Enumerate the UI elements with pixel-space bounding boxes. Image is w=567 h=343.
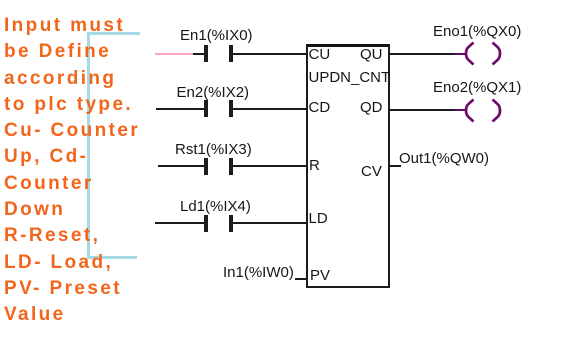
blue bracket vertical bbox=[87, 32, 90, 259]
contact En1 right bar bbox=[229, 45, 233, 62]
wire row 2 left bbox=[156, 108, 204, 110]
node Eno1 label bbox=[433, 24, 521, 39]
block name UPDN_CNT bbox=[309, 70, 391, 85]
pin PV bbox=[310, 268, 330, 283]
contact Rst1 right bar bbox=[229, 158, 233, 175]
contact En2 left bar bbox=[204, 100, 208, 117]
wire row 3 right bbox=[233, 165, 307, 167]
pin CD bbox=[309, 100, 331, 115]
pin R bbox=[309, 158, 320, 173]
contact Rst1 left bar bbox=[204, 158, 208, 175]
node En2 label bbox=[177, 85, 250, 100]
node En1 label bbox=[180, 28, 253, 43]
node Out1 label bbox=[399, 151, 489, 166]
wire QD to coil 2 bbox=[388, 109, 455, 111]
wire purple stub into coil 2 bbox=[455, 109, 466, 111]
wire row 5 stub to PV bbox=[295, 278, 308, 280]
wire row 4 left bbox=[155, 222, 204, 224]
coil Eno2 bbox=[450, 95, 510, 125]
wire CV stub bbox=[388, 165, 401, 167]
pin QU bbox=[360, 47, 383, 62]
wire row 4 right bbox=[233, 222, 307, 224]
node Rst1 label bbox=[175, 142, 252, 157]
annotation text (orange) bbox=[4, 13, 140, 329]
node Eno2 label bbox=[433, 80, 521, 95]
pin CU bbox=[309, 47, 331, 62]
function block UPDN_CNT bbox=[306, 44, 390, 288]
contact En2 right bar bbox=[229, 100, 233, 117]
pin CV bbox=[361, 164, 382, 179]
blue bracket top horizontal bbox=[87, 32, 140, 35]
coil Eno1 bbox=[450, 38, 510, 68]
blue bracket bottom horizontal bbox=[87, 256, 137, 259]
contact Ld1 right bar bbox=[229, 215, 233, 232]
pin LD bbox=[309, 211, 328, 226]
wire row 1 right bbox=[233, 53, 307, 55]
contact Ld1 left bar bbox=[204, 215, 208, 232]
wire row 2 right bbox=[233, 108, 307, 110]
wire QU to coil 1 bbox=[388, 53, 455, 55]
pin QD bbox=[360, 100, 383, 115]
wire row 1 left bbox=[193, 53, 204, 55]
wire pink stub row 1 bbox=[155, 53, 193, 55]
node In1 label bbox=[223, 265, 294, 280]
wire row 3 left bbox=[158, 165, 204, 167]
node Ld1 label bbox=[180, 199, 251, 214]
contact En1 left bar bbox=[204, 45, 208, 62]
wire purple stub into coil 1 bbox=[455, 53, 466, 55]
